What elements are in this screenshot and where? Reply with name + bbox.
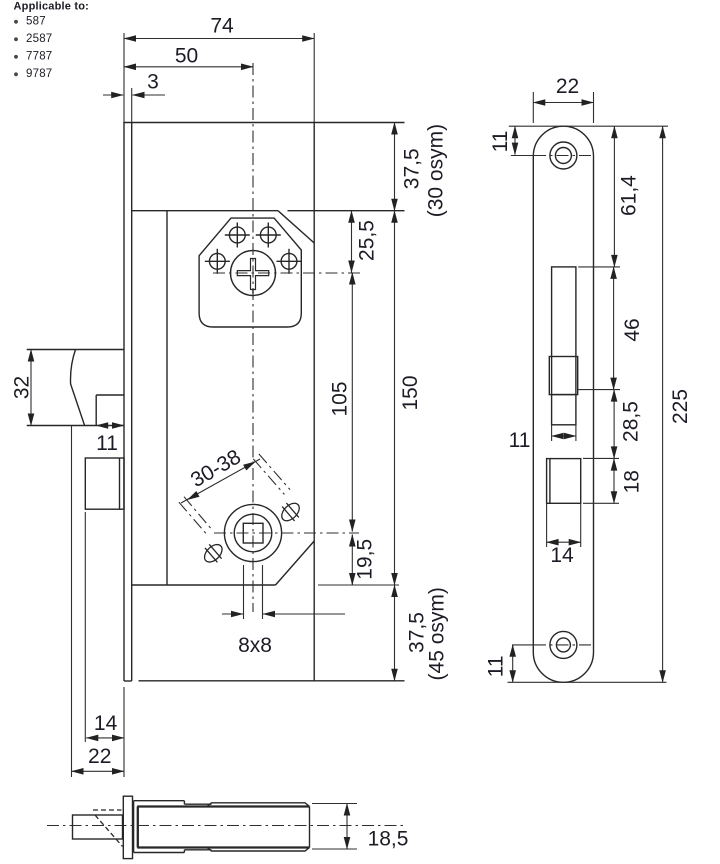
svg-text:7787: 7787 xyxy=(26,51,52,63)
svg-text:30-38: 30-38 xyxy=(187,445,245,492)
svg-text:105: 105 xyxy=(328,381,351,416)
svg-text:(30 osym): (30 osym) xyxy=(425,124,448,217)
svg-text:11: 11 xyxy=(485,655,508,677)
svg-text:14: 14 xyxy=(550,544,574,567)
svg-text:18: 18 xyxy=(620,470,643,493)
svg-text:25,5: 25,5 xyxy=(356,220,379,261)
svg-text:11: 11 xyxy=(96,432,118,455)
svg-text:19,5: 19,5 xyxy=(353,539,376,580)
svg-text:225: 225 xyxy=(669,389,692,424)
svg-text:18,5: 18,5 xyxy=(368,828,409,851)
svg-text:74: 74 xyxy=(210,15,234,38)
svg-text:2587: 2587 xyxy=(26,33,52,45)
svg-text:150: 150 xyxy=(399,375,422,410)
svg-text:11: 11 xyxy=(509,429,531,452)
svg-text:50: 50 xyxy=(175,45,198,68)
svg-text:22: 22 xyxy=(556,75,579,98)
svg-text:(45 osym): (45 osym) xyxy=(425,587,448,680)
svg-text:9787: 9787 xyxy=(26,68,52,80)
svg-text:22: 22 xyxy=(88,745,111,768)
svg-text:11: 11 xyxy=(489,131,512,153)
svg-text:3: 3 xyxy=(147,71,159,94)
svg-text:37,5: 37,5 xyxy=(400,148,423,189)
svg-text:61,4: 61,4 xyxy=(618,175,641,216)
svg-text:8x8: 8x8 xyxy=(238,634,272,657)
svg-text:14: 14 xyxy=(94,712,118,735)
svg-text:28,5: 28,5 xyxy=(620,401,643,442)
svg-text:46: 46 xyxy=(621,318,644,341)
svg-text:32: 32 xyxy=(11,376,34,399)
svg-text:Applicable to:: Applicable to: xyxy=(14,0,90,12)
svg-text:587: 587 xyxy=(26,16,46,28)
